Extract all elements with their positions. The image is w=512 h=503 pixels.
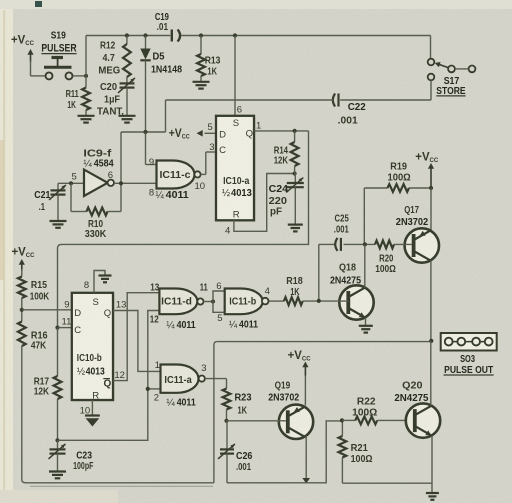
label IC11-d pin 12 — [150, 315, 159, 326]
IC10-b pin8 to ground — [94, 271, 105, 293]
pushbutton switch S19 — [44, 58, 73, 80]
label R12 — [100, 41, 116, 52]
NAND gate IC11-b — [225, 289, 263, 315]
resistor R22 — [342, 417, 413, 425]
label IC10-b Qbar — [103, 379, 111, 390]
resistor R10 feedback loop — [71, 183, 121, 215]
label Q17 — [404, 205, 419, 216]
label R16 value 47K — [31, 341, 47, 352]
label IC10-a C — [219, 145, 226, 156]
transistor Q19 — [279, 405, 313, 439]
label C25 value .001 — [334, 224, 349, 235]
capacitor C26 (variable) — [218, 421, 235, 483]
label IC10-b 1/2 4013 — [77, 367, 105, 378]
wire C26 net lower rail — [227, 421, 342, 483]
label Q20 — [402, 381, 423, 392]
wire D5 node to IC11-c pin9 — [146, 132, 157, 165]
NAND gate IC11-c — [157, 161, 195, 189]
label C20 value 1uF — [104, 95, 120, 106]
label IC11-c pin 10 — [195, 181, 206, 192]
label IC10-b Q — [104, 308, 111, 319]
wire Q18 emitter to ground — [365, 318, 367, 326]
ground below Q18 — [359, 326, 373, 333]
wire C25 left / Q18 base tap — [319, 244, 335, 301]
resistor R15 — [18, 277, 26, 299]
label PULSE OUT — [444, 365, 494, 376]
label IC10-a 1/2 4013 — [222, 188, 252, 199]
wire Q net down/left loop to IC10-b pin11 — [55, 131, 308, 330]
label C26 value .001 — [236, 462, 251, 473]
resistor R16 — [18, 322, 26, 347]
wire shadow under bottom rail — [30, 485, 213, 487]
label IC11-a pin 3 — [201, 363, 206, 374]
transistor Q20 — [406, 403, 440, 437]
transistor Q17 — [405, 228, 439, 262]
label IC10-a pin 1 — [256, 121, 261, 132]
top rail wire (Vcc row) — [86, 33, 431, 37]
wire IC10-b pin13/Q to IC11-a pin1 — [113, 311, 161, 372]
capacitor C19 — [172, 30, 180, 42]
wire Q18 collector up to C25/R19 node — [364, 244, 366, 287]
ground below R13 — [193, 82, 210, 89]
ground below C20 — [119, 116, 136, 123]
label C24 value pF — [270, 207, 282, 218]
connector SO3 — [441, 333, 497, 351]
wire top rail to IC10-a pin6 — [234, 36, 236, 116]
left rail wire — [20, 269, 214, 483]
wire C23 node to IC11-d pin12 / IC11-a pin2 — [58, 311, 161, 441]
resistor R18 — [268, 297, 348, 305]
label Q20 type 2N4275 — [394, 393, 428, 404]
wire IC10-a pin1/Q to R14 node — [254, 129, 309, 133]
label D5 — [153, 52, 165, 63]
label IC10-b pin 13 — [116, 300, 127, 311]
label R14 — [274, 146, 289, 157]
label IC11-c pin 8 — [149, 188, 154, 199]
wire output node line — [214, 339, 434, 345]
label R15 value 100K — [30, 291, 50, 302]
label R23 — [235, 393, 252, 404]
wire top rail down to S17 — [430, 36, 432, 59]
wire branch down to IC9-f output — [120, 132, 122, 183]
label IC11-a 1/4 4011 — [166, 397, 196, 409]
label IC9-f 1/4 4584 — [83, 157, 114, 169]
label R18 — [286, 276, 303, 287]
label R10 — [88, 219, 103, 230]
wire IC10-b pin12/Qbar to IC11-d pin13 — [113, 293, 159, 381]
ground at IC10-b pin10 — [85, 416, 100, 427]
label Q17 type 2N3702 — [396, 217, 429, 228]
wire ground rail to Q20 — [342, 482, 432, 484]
label IC11-a — [164, 375, 192, 386]
label C22 — [348, 102, 366, 113]
inverter IC9-f — [84, 170, 114, 196]
wire IC10-a pin5 to Vcc — [169, 128, 216, 141]
wire C25 to R20 — [344, 242, 376, 246]
wire IC11-c out to IC10-a pin3 — [201, 152, 216, 174]
wire rail to IC10-b pin9 — [22, 309, 72, 311]
label R18 value 1K — [290, 287, 300, 298]
wire IC11-d out to IC11-b inputs — [204, 291, 225, 312]
label IC11-b pin 4 — [265, 286, 270, 297]
IC10-b pin10 to ground — [91, 400, 93, 415]
Vcc arrow at Q17 — [415, 152, 438, 189]
label C20 value TANT. — [97, 107, 124, 118]
label R11 value 1K — [67, 100, 76, 111]
label IC9-f pin 6 — [108, 170, 113, 181]
label IC10-b pin 10 — [80, 406, 91, 417]
label D5 value 1N4148 — [151, 65, 182, 76]
label R12 value 4.7 — [103, 53, 116, 64]
label R11 — [66, 89, 79, 100]
label IC11-a pin 2 — [154, 393, 159, 404]
flip-flop IC10-a box — [216, 116, 255, 222]
label C25 — [335, 214, 350, 225]
wire Q20 emitter to ground — [431, 436, 433, 484]
label Q18 — [339, 263, 356, 274]
ground at Q20 — [426, 483, 439, 500]
label SO3 — [460, 354, 475, 365]
label C21 — [34, 190, 50, 201]
label IC10-b pin 8 — [84, 280, 89, 291]
resistor R20 — [375, 241, 412, 249]
ground below C23 — [49, 472, 66, 479]
label R13 value 1K — [207, 67, 217, 78]
NAND gate IC11-a — [161, 365, 199, 393]
label IC11-c — [160, 170, 191, 181]
label IC10-a pin 5 — [208, 122, 213, 133]
label PULSER — [41, 43, 76, 55]
label R20 — [379, 254, 394, 265]
resistor R12 — [123, 36, 131, 84]
label IC11-d pin 11 — [200, 282, 208, 293]
label IC10-a pin 6 — [237, 105, 242, 116]
resistor R21 — [339, 418, 347, 483]
label IC11-d 1/4 4011 — [166, 319, 196, 331]
label IC11-a pin 1 — [155, 360, 160, 371]
label R22 — [357, 396, 376, 407]
label IC11-d — [161, 297, 192, 308]
label IC9-f — [83, 149, 112, 160]
wire IC9-f output to IC11-c pin8 — [114, 181, 157, 185]
resistor R17 — [54, 328, 62, 443]
label IC10-b C — [74, 325, 81, 336]
wire IC11-a output to R23 — [205, 378, 227, 380]
wire C22 line to D5 node — [121, 100, 333, 134]
label IC11-d pin 13 — [150, 282, 159, 293]
label R14 value 12K — [274, 156, 289, 167]
resistor R23 — [223, 379, 231, 423]
label IC10-b D — [74, 308, 81, 319]
label C23 — [76, 451, 92, 462]
label IC10-b pin 12 — [114, 370, 125, 381]
bubble IC11-c output — [194, 171, 200, 177]
label C23 value 100pF — [73, 461, 93, 472]
label R20 value 100ohm — [375, 264, 396, 275]
label IC10-a S — [233, 118, 239, 129]
switch S17 — [428, 59, 476, 81]
label Q19 type 2N3702 — [268, 393, 299, 404]
label IC11-c 1/4 4011 — [155, 189, 189, 201]
label IC10-b pin 11 — [62, 317, 72, 328]
label C24 value 220 — [269, 196, 288, 207]
label IC9-f pin 5 — [72, 172, 77, 183]
label IC10-a name — [223, 176, 250, 187]
label IC10-a R — [233, 209, 240, 220]
ground at IC10-b pin8 — [99, 276, 112, 283]
resistor R11 — [82, 76, 90, 116]
wire IC10-a pin4 loop — [234, 171, 297, 231]
label IC11-c pin 9 — [149, 157, 154, 168]
label R10 value 330K — [85, 229, 107, 240]
transistor Q18 — [339, 285, 373, 319]
bubble IC11-a output — [199, 376, 205, 382]
wire Vcc to Q19 emitter — [304, 376, 306, 406]
wire S17 to C22 line — [340, 80, 431, 100]
ground below C24 — [288, 225, 303, 232]
ground below R11 — [78, 116, 95, 123]
label IC10-a D — [219, 129, 226, 140]
label IC11-b pin 6 — [216, 281, 221, 292]
wire Vcc to S19 left contact — [31, 75, 46, 77]
label IC10-b S — [93, 297, 99, 308]
resistor R19 — [364, 184, 433, 244]
NAND gate IC11-d — [159, 289, 197, 315]
label R16 — [31, 331, 48, 342]
ground below C21 — [50, 221, 67, 228]
bubble IC11-b output — [262, 298, 269, 305]
Vcc supply arrow (S19) — [11, 35, 34, 77]
label IC10-a pin 3 — [209, 142, 214, 153]
wire S19 to R11 node — [73, 74, 88, 78]
label IC11-b 1/4 4011 — [229, 318, 259, 330]
capacitor C25 — [335, 238, 341, 251]
label IC10-b name — [77, 353, 102, 364]
wire R23 node to Q19 base — [227, 420, 286, 422]
label IC10-a Q — [246, 128, 253, 139]
Vcc arrow left rail — [12, 246, 35, 271]
label R21 — [351, 443, 369, 454]
label R19 — [390, 162, 407, 173]
resistor R13 — [197, 36, 205, 82]
label R23 value 1K — [238, 406, 248, 417]
label R17 — [34, 377, 50, 388]
label C21 value .1 — [39, 202, 46, 213]
capacitor C21 (variable) — [49, 183, 66, 221]
diode D5 — [140, 36, 150, 133]
label Q19 — [275, 381, 291, 392]
label C20 — [100, 82, 117, 93]
capacitor C20 (variable) — [118, 78, 135, 116]
label R13 — [205, 56, 221, 67]
bubble IC11-d output — [197, 298, 203, 304]
label IC11-b — [229, 297, 256, 308]
label C19 value .01 — [157, 22, 169, 33]
wire Q19 collector to lower rail — [302, 436, 310, 484]
label IC10-a pin 4 — [225, 226, 230, 237]
label R19 value 100ohm — [388, 173, 411, 184]
wire Q17 collector to output node — [430, 261, 432, 341]
wire Vcc node to Q17 — [430, 188, 432, 230]
label IC11-b pin 5 — [217, 313, 222, 324]
label C26 — [236, 451, 253, 462]
label R17 value 12K — [34, 386, 50, 397]
resistor R14 — [291, 131, 299, 174]
label R21 value 100ohm — [351, 454, 373, 465]
wire C21/input to IC9-f — [58, 181, 84, 185]
label C19 — [155, 12, 169, 23]
wire Q20 collector to output node — [430, 341, 432, 406]
label IC10-b pin 9 — [64, 300, 69, 311]
label IC10-b R — [92, 390, 99, 401]
wire R11 node up to top rail — [85, 36, 87, 76]
label C24 — [269, 184, 289, 195]
label S17 — [444, 76, 460, 87]
Vcc arrow at Q19 — [288, 350, 311, 376]
label R12 value MEG — [98, 65, 120, 76]
wire output down left side — [213, 345, 215, 483]
capacitor C23 (variable) — [49, 440, 66, 471]
wire C node to IC10-b pin11 — [58, 327, 72, 329]
label R15 — [31, 280, 47, 291]
capacitor C24 (variable) — [286, 174, 304, 225]
label C22 value .001 — [338, 116, 358, 127]
label R22 value 100ohm — [352, 407, 377, 418]
flip-flop IC10-b box — [72, 293, 114, 401]
label Q18 type 2N4275 — [330, 276, 361, 287]
capacitor C22 — [333, 94, 339, 107]
label S19 — [51, 30, 66, 41]
label STORE — [436, 86, 465, 97]
